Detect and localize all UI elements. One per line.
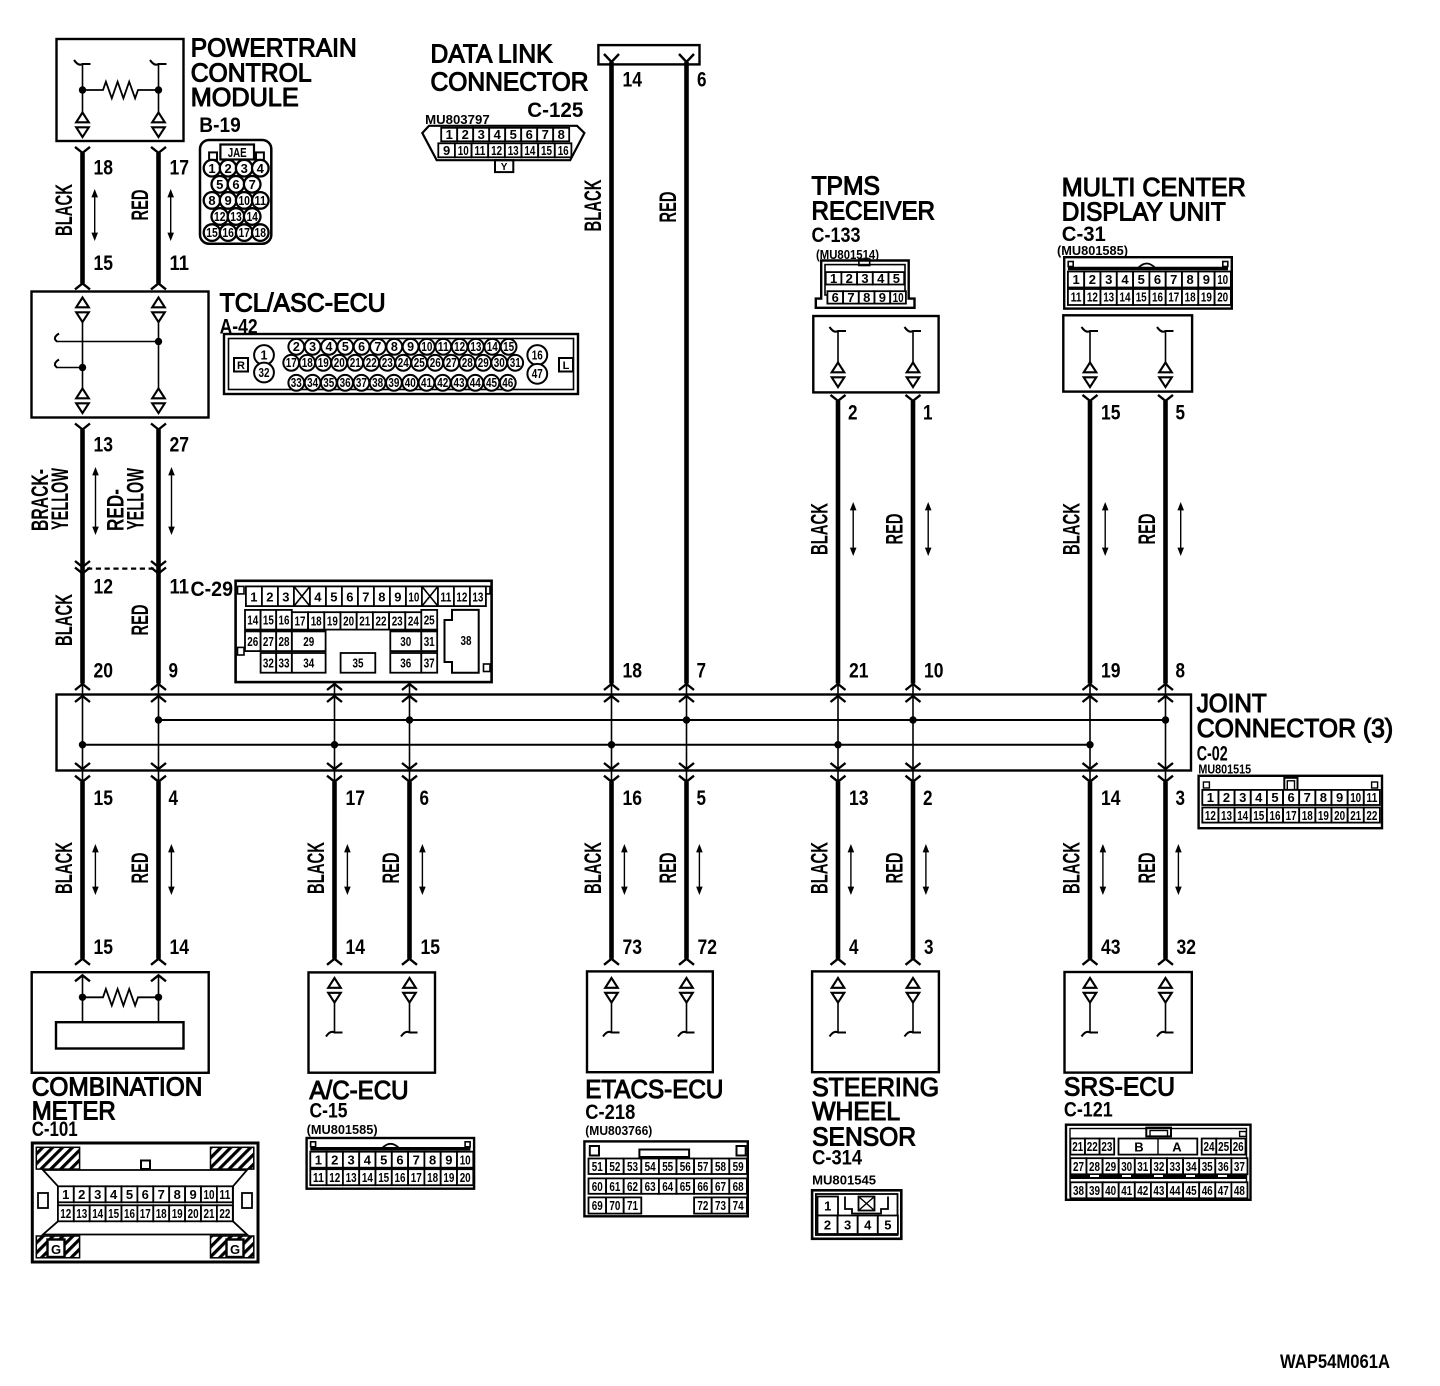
- svg-text:14: 14: [346, 936, 366, 959]
- svg-text:27: 27: [1073, 1159, 1084, 1174]
- svg-text:9: 9: [169, 660, 179, 683]
- connector icon C-314: [812, 1190, 901, 1239]
- terminal pair STEERING WHEEL SENSOR: [907, 978, 920, 988]
- svg-text:2: 2: [224, 161, 231, 176]
- svg-text:14: 14: [524, 143, 536, 158]
- svg-text:34: 34: [303, 656, 315, 671]
- svg-text:42: 42: [1137, 1183, 1148, 1198]
- terminal pair TCL bottom left: [76, 389, 89, 399]
- svg-text:9: 9: [189, 1187, 196, 1202]
- svg-text:6: 6: [142, 1187, 149, 1202]
- svg-text:22: 22: [1087, 1139, 1098, 1154]
- svg-text:32: 32: [263, 656, 274, 671]
- svg-text:10: 10: [238, 193, 250, 208]
- terminal pair SRS-ECU: [1084, 978, 1097, 988]
- svg-text:7: 7: [362, 589, 369, 604]
- svg-text:18: 18: [311, 614, 322, 629]
- svg-text:8: 8: [558, 127, 565, 142]
- svg-text:7: 7: [158, 1187, 165, 1202]
- connector icon C-101: [32, 1143, 258, 1262]
- svg-text:38: 38: [372, 376, 383, 390]
- svg-text:56: 56: [680, 1159, 691, 1174]
- wire RED joint to COMBINATION METER: [156, 782, 161, 959]
- joint connector wire segment x=334.5: [334, 684, 336, 782]
- svg-text:3: 3: [1105, 272, 1112, 287]
- svg-text:15: 15: [1101, 402, 1121, 425]
- svg-text:16: 16: [532, 348, 543, 362]
- svg-text:27: 27: [170, 434, 190, 457]
- crossing marks bottom x=611.5: [604, 763, 619, 769]
- svg-text:YELLOW: YELLOW: [122, 467, 149, 530]
- svg-text:12: 12: [1205, 808, 1216, 823]
- svg-text:13: 13: [1221, 808, 1232, 823]
- svg-text:A: A: [1172, 1139, 1182, 1154]
- svg-text:37: 37: [1234, 1159, 1245, 1174]
- arrow pair4 lower red: [925, 851, 927, 889]
- svg-text:41: 41: [1121, 1183, 1132, 1198]
- wire BLACK TPMS pin2 to pin21: [831, 395, 846, 401]
- svg-text:RED: RED: [1134, 514, 1161, 545]
- svg-text:1: 1: [1207, 790, 1214, 805]
- svg-text:33: 33: [291, 376, 302, 390]
- crossing marks top x=611.5: [604, 684, 619, 690]
- arrow TPMS red: [927, 509, 929, 550]
- svg-text:G: G: [230, 1242, 240, 1257]
- svg-text:54: 54: [645, 1159, 657, 1174]
- internal wire TCL to right leg: [55, 334, 59, 342]
- svg-text:BLACK: BLACK: [51, 594, 78, 646]
- svg-text:19: 19: [1201, 290, 1212, 305]
- arrow pair5 lower black: [1102, 851, 1104, 889]
- terminal pair TCL bottom right: [152, 389, 165, 399]
- svg-text:7: 7: [542, 127, 549, 142]
- svg-text:6: 6: [358, 340, 365, 354]
- svg-text:17: 17: [238, 225, 250, 240]
- svg-text:9: 9: [443, 143, 450, 158]
- svg-text:RED: RED: [127, 605, 154, 636]
- terminal hook STEERING WHEEL SENSOR: [905, 1032, 922, 1037]
- svg-text:33: 33: [279, 656, 290, 671]
- svg-text:45: 45: [486, 376, 497, 390]
- svg-text:19: 19: [318, 356, 329, 370]
- svg-text:13: 13: [230, 209, 242, 224]
- svg-text:63: 63: [645, 1179, 656, 1194]
- svg-text:40: 40: [405, 376, 416, 390]
- resistor (terminating) inside PCM: [83, 82, 159, 99]
- arrow pair1 lower black: [94, 851, 96, 889]
- svg-text:4: 4: [314, 589, 322, 604]
- terminal hook SRS-ECU: [1082, 1032, 1099, 1037]
- box U5 COMBINATION METER: [32, 972, 209, 1073]
- connector icon C-02: [1199, 776, 1382, 828]
- arrow wire1 seg2 red: [171, 474, 173, 529]
- joint connector wire segment x=1165.5: [1165, 684, 1167, 782]
- arrow MCDU red: [1180, 509, 1182, 550]
- arrow pair3 lower black: [623, 851, 625, 889]
- terminal pair MCDU left: [1084, 363, 1097, 373]
- svg-text:5: 5: [1138, 272, 1145, 287]
- terminal pair symbol PCM right: [152, 113, 165, 123]
- svg-text:15: 15: [263, 613, 274, 628]
- svg-text:11: 11: [1071, 290, 1082, 305]
- terminal hook TPMS left: [830, 327, 847, 332]
- wire RED joint to STEERING WHEEL SENSOR: [911, 782, 916, 959]
- svg-text:46: 46: [502, 376, 513, 390]
- svg-text:17: 17: [140, 1206, 151, 1221]
- svg-text:7: 7: [249, 177, 256, 192]
- svg-text:BLACK: BLACK: [1059, 842, 1086, 894]
- svg-text:18: 18: [623, 660, 643, 683]
- junction dot lower bus x=838.0: [834, 741, 841, 748]
- arrow pair4 lower black: [850, 851, 852, 889]
- svg-text:51: 51: [592, 1159, 603, 1174]
- svg-text:7: 7: [1170, 272, 1177, 287]
- crossing marks bottom x=913.0: [906, 763, 921, 769]
- svg-text:5: 5: [510, 127, 517, 142]
- svg-text:21: 21: [1350, 808, 1361, 823]
- arrow wire1: [94, 196, 96, 235]
- connector icon C-133: [816, 259, 915, 308]
- svg-text:23: 23: [382, 356, 393, 370]
- internal wire TCL to left leg: [55, 360, 59, 368]
- svg-text:27: 27: [263, 634, 274, 649]
- svg-text:8: 8: [1320, 790, 1327, 805]
- svg-text:22: 22: [366, 356, 377, 370]
- svg-text:C-101: C-101: [32, 1118, 78, 1141]
- svg-text:26: 26: [1233, 1139, 1244, 1154]
- svg-text:C-29: C-29: [191, 578, 234, 601]
- svg-text:64: 64: [662, 1179, 674, 1194]
- terminal hook left inside PCM: [74, 60, 91, 65]
- svg-text:34: 34: [1186, 1159, 1198, 1174]
- svg-text:21: 21: [849, 660, 869, 683]
- svg-text:32: 32: [1177, 936, 1197, 959]
- svg-text:4: 4: [1121, 272, 1129, 287]
- svg-text:MU801515: MU801515: [1198, 761, 1251, 776]
- svg-text:3: 3: [347, 1152, 354, 1167]
- svg-text:WAP54M061A: WAP54M061A: [1280, 1352, 1390, 1373]
- svg-text:B-19: B-19: [199, 114, 240, 137]
- svg-text:RED: RED: [1134, 853, 1161, 884]
- arrow pair3 lower red: [698, 851, 700, 889]
- svg-text:3: 3: [478, 127, 485, 142]
- svg-text:30: 30: [400, 634, 411, 649]
- svg-text:72: 72: [698, 936, 718, 959]
- svg-text:4: 4: [877, 271, 885, 286]
- svg-text:15: 15: [378, 1170, 389, 1185]
- svg-text:17: 17: [170, 157, 190, 180]
- cell 38 of C-29: [445, 610, 479, 673]
- gauge unit rectangle inside combination meter: [56, 1022, 184, 1048]
- svg-text:6: 6: [1154, 272, 1161, 287]
- svg-text:1: 1: [261, 348, 268, 362]
- svg-text:31: 31: [510, 356, 521, 370]
- svg-text:35: 35: [323, 376, 334, 390]
- svg-text:7: 7: [1304, 790, 1311, 805]
- svg-text:31: 31: [1137, 1159, 1148, 1174]
- svg-text:26: 26: [430, 356, 441, 370]
- svg-text:6: 6: [232, 177, 239, 192]
- svg-text:BLACK: BLACK: [303, 842, 330, 894]
- svg-text:6: 6: [396, 1152, 403, 1167]
- svg-text:69: 69: [592, 1198, 603, 1213]
- svg-text:10: 10: [460, 1152, 471, 1167]
- svg-text:20: 20: [1334, 808, 1345, 823]
- svg-text:5: 5: [697, 787, 707, 810]
- crossing marks bottom x=838.0: [831, 763, 846, 769]
- svg-text:35: 35: [1202, 1159, 1213, 1174]
- wire BLACK joint to COMBINATION METER: [80, 782, 85, 959]
- svg-text:2: 2: [1089, 272, 1096, 287]
- svg-text:11: 11: [313, 1170, 324, 1185]
- svg-text:25: 25: [1218, 1139, 1229, 1154]
- terminal pair TPMS right: [907, 363, 920, 373]
- svg-text:BLACK: BLACK: [51, 842, 78, 894]
- svg-text:4: 4: [169, 787, 179, 810]
- terminal hook ETACS-ECU: [603, 1032, 620, 1037]
- wire RED-YELLOW pin27 to pin11: [151, 424, 166, 430]
- svg-text:TCL/ASC-ECU: TCL/ASC-ECU: [220, 288, 386, 318]
- svg-text:10: 10: [893, 290, 904, 305]
- svg-text:3: 3: [1176, 787, 1186, 810]
- svg-text:6: 6: [832, 290, 839, 305]
- wire RED DLC pin6 to pin7: [679, 54, 694, 62]
- svg-text:53: 53: [627, 1159, 638, 1174]
- svg-text:27: 27: [446, 356, 457, 370]
- svg-text:36: 36: [400, 656, 411, 671]
- connector icon A-42: [224, 334, 578, 394]
- svg-text:21: 21: [350, 356, 361, 370]
- svg-text:8: 8: [1186, 272, 1193, 287]
- svg-text:29: 29: [478, 356, 489, 370]
- svg-text:8: 8: [208, 193, 215, 208]
- svg-text:18: 18: [1185, 290, 1196, 305]
- crossing marks top x=686.5: [679, 684, 694, 690]
- terminal pair TCL top left: [76, 298, 89, 308]
- svg-text:43: 43: [1101, 936, 1121, 959]
- svg-text:14: 14: [362, 1170, 374, 1185]
- crossing marks at C-29 right wire: [151, 561, 166, 567]
- svg-text:32: 32: [259, 366, 270, 380]
- arrow pair5 lower red: [1177, 851, 1179, 889]
- svg-text:5: 5: [342, 340, 349, 354]
- svg-text:4: 4: [364, 1152, 372, 1167]
- svg-text:28: 28: [279, 634, 290, 649]
- svg-text:BLACK: BLACK: [807, 503, 834, 555]
- svg-text:28: 28: [462, 356, 473, 370]
- svg-text:6: 6: [526, 127, 533, 142]
- svg-text:14: 14: [170, 936, 190, 959]
- arrow MCDU black: [1104, 509, 1106, 550]
- svg-text:67: 67: [715, 1179, 726, 1194]
- arrow pair2 lower black: [346, 851, 348, 889]
- svg-text:YELLOW: YELLOW: [47, 467, 74, 530]
- terminal hook MCDU left: [1082, 327, 1099, 332]
- svg-text:14: 14: [623, 69, 643, 92]
- connector icon C-15: [307, 1138, 475, 1189]
- connector icon C-121: [1066, 1125, 1251, 1200]
- terminal pair STEERING WHEEL SENSOR: [832, 978, 845, 988]
- svg-text:14: 14: [92, 1206, 104, 1221]
- svg-text:B: B: [1134, 1139, 1143, 1154]
- svg-text:RED: RED: [882, 853, 909, 884]
- terminal hook STEERING WHEEL SENSOR: [830, 1032, 847, 1037]
- svg-text:1: 1: [1072, 272, 1079, 287]
- svg-text:L: L: [563, 360, 570, 372]
- crossing marks inside combination meter: [75, 975, 90, 981]
- crossing marks top x=913.0: [906, 684, 921, 690]
- svg-text:14: 14: [1101, 787, 1121, 810]
- box U8 STEERING WHEEL SENSOR: [812, 971, 939, 1072]
- svg-text:20: 20: [1217, 290, 1228, 305]
- svg-text:2: 2: [923, 787, 933, 810]
- terminal pair symbol PCM left: [76, 113, 89, 123]
- svg-text:12: 12: [60, 1206, 71, 1221]
- svg-text:36: 36: [340, 376, 351, 390]
- crossing marks bottom x=686.5: [679, 763, 694, 769]
- svg-text:9: 9: [1336, 790, 1343, 805]
- svg-text:2: 2: [266, 589, 273, 604]
- svg-text:3: 3: [844, 1218, 851, 1233]
- terminal pair SRS-ECU: [1159, 978, 1172, 988]
- svg-text:14: 14: [1120, 290, 1132, 305]
- crossing marks bottom x=158.5: [151, 763, 166, 769]
- svg-text:35: 35: [353, 656, 364, 671]
- svg-text:9: 9: [407, 340, 414, 354]
- wire BLACK DLC pin14 to pin18: [604, 54, 619, 62]
- svg-text:62: 62: [627, 1179, 638, 1194]
- svg-text:RED: RED: [378, 853, 405, 884]
- junction dot upper bus x=1165.5: [1162, 716, 1169, 723]
- arrow pair2 lower red: [421, 851, 423, 889]
- svg-text:12: 12: [491, 143, 502, 158]
- svg-text:11: 11: [255, 193, 267, 208]
- box U2 TCL/ASC-ECU: [32, 292, 209, 418]
- svg-text:47: 47: [532, 367, 543, 381]
- svg-text:1: 1: [824, 1199, 831, 1214]
- svg-text:26: 26: [247, 634, 258, 649]
- svg-text:14: 14: [1237, 808, 1249, 823]
- svg-text:6: 6: [346, 589, 353, 604]
- connector icon B-19 (JAE): [200, 140, 271, 244]
- svg-text:9: 9: [445, 1152, 452, 1167]
- svg-text:8: 8: [378, 589, 385, 604]
- svg-text:11: 11: [474, 143, 485, 158]
- arrow TPMS black: [852, 509, 854, 550]
- svg-text:36: 36: [1218, 1159, 1229, 1174]
- svg-text:SRS-ECU: SRS-ECU: [1064, 1072, 1175, 1102]
- svg-text:18: 18: [156, 1206, 167, 1221]
- crossing marks top x=1090.0: [1083, 684, 1098, 690]
- svg-text:23: 23: [392, 614, 403, 629]
- svg-text:41: 41: [421, 376, 432, 390]
- svg-text:73: 73: [623, 936, 643, 959]
- joint connector wire segment x=158.5: [158, 684, 160, 782]
- box DATA LINK CONNECTOR top: [598, 45, 699, 64]
- crossing marks at C-29 left wire: [75, 561, 90, 567]
- svg-text:17: 17: [1168, 290, 1179, 305]
- wire BLACK-YELLOW pin13 to pin12: [75, 424, 90, 430]
- svg-text:4: 4: [110, 1187, 118, 1202]
- junction dot lower bus x=334.5: [331, 741, 338, 748]
- svg-text:72: 72: [697, 1198, 708, 1213]
- svg-text:ETACS-ECU: ETACS-ECU: [585, 1074, 723, 1104]
- svg-text:2: 2: [848, 402, 858, 425]
- svg-text:13: 13: [94, 434, 114, 457]
- svg-text:11: 11: [170, 576, 190, 599]
- svg-text:2: 2: [462, 127, 469, 142]
- junction dot upper bus x=158.5: [155, 716, 162, 723]
- svg-text:48: 48: [1234, 1183, 1245, 1198]
- svg-text:15: 15: [421, 936, 441, 959]
- svg-text:31: 31: [424, 634, 435, 649]
- junction dot upper bus x=686.5: [683, 716, 690, 723]
- svg-text:10: 10: [421, 340, 432, 354]
- svg-text:BLACK: BLACK: [1059, 503, 1086, 555]
- svg-text:22: 22: [376, 614, 387, 629]
- svg-text:13: 13: [1103, 290, 1114, 305]
- svg-text:6: 6: [1287, 790, 1294, 805]
- svg-text:6: 6: [697, 69, 707, 92]
- svg-text:2: 2: [293, 340, 300, 354]
- crossing marks bottom x=334.5: [327, 763, 342, 769]
- svg-text:C-125: C-125: [527, 99, 583, 122]
- svg-text:44: 44: [470, 376, 481, 390]
- terminal hook TPMS right: [905, 327, 922, 332]
- terminal hook A/C-ECU: [401, 1032, 418, 1037]
- svg-text:9: 9: [1203, 272, 1210, 287]
- crossing marks top x=1165.5: [1158, 684, 1173, 690]
- connector icon C-29: [236, 581, 492, 682]
- svg-text:7: 7: [697, 660, 707, 683]
- box U9 SRS-ECU: [1065, 972, 1192, 1073]
- svg-text:C-218: C-218: [585, 1101, 635, 1124]
- svg-text:19: 19: [1318, 808, 1329, 823]
- svg-text:13: 13: [472, 589, 483, 604]
- wire RED MCDU pin5 to pin8: [1158, 395, 1173, 401]
- svg-text:JAE: JAE: [228, 145, 247, 160]
- joint connector wire segment x=409.5: [409, 684, 411, 782]
- svg-text:45: 45: [1186, 1183, 1197, 1198]
- svg-text:10: 10: [458, 143, 469, 158]
- svg-text:10: 10: [1350, 790, 1361, 805]
- svg-text:29: 29: [1105, 1159, 1116, 1174]
- joint connector wire segment x=1090.0: [1089, 684, 1091, 782]
- svg-text:DATA LINK: DATA LINK: [431, 38, 554, 68]
- svg-text:2: 2: [331, 1152, 338, 1167]
- svg-text:59: 59: [733, 1159, 744, 1174]
- terminal pair ETACS-ECU: [680, 978, 693, 988]
- svg-text:11: 11: [170, 252, 190, 275]
- terminal pair MCDU right: [1159, 363, 1172, 373]
- svg-text:34: 34: [307, 376, 318, 390]
- svg-text:4: 4: [257, 161, 265, 176]
- svg-text:71: 71: [627, 1198, 638, 1213]
- svg-text:40: 40: [1105, 1183, 1116, 1198]
- arrow pair1 lower red: [170, 851, 172, 889]
- svg-text:37: 37: [424, 656, 435, 671]
- svg-text:16: 16: [279, 613, 290, 628]
- svg-text:1: 1: [62, 1187, 69, 1202]
- svg-text:2: 2: [846, 271, 853, 286]
- svg-text:BLACK: BLACK: [807, 842, 834, 894]
- terminal hook MCDU right: [1157, 327, 1174, 332]
- svg-text:RED: RED: [127, 853, 154, 884]
- connector icon C-218: [584, 1141, 747, 1216]
- svg-text:18: 18: [302, 356, 313, 370]
- svg-text:1: 1: [315, 1152, 322, 1167]
- crossing marks top x=82.5: [75, 684, 90, 690]
